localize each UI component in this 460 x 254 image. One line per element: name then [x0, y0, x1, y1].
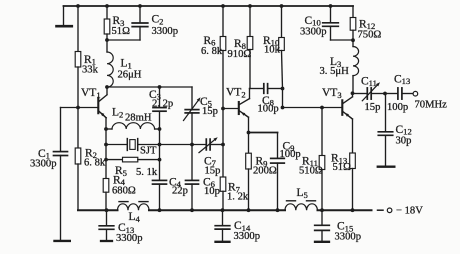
- svg-text:VT3: VT3: [322, 87, 342, 100]
- svg-text:3300p: 3300p: [234, 231, 260, 242]
- svg-text:750Ω: 750Ω: [358, 30, 382, 41]
- svg-text:6. 8k: 6. 8k: [201, 46, 223, 57]
- svg-text:3. 5μH: 3. 5μH: [320, 66, 350, 77]
- svg-text:3300p: 3300p: [30, 159, 56, 170]
- svg-text:22p: 22p: [172, 186, 188, 197]
- svg-text:15p: 15p: [202, 106, 218, 117]
- svg-text:51Ω: 51Ω: [112, 26, 131, 37]
- svg-text:26μH: 26μH: [118, 70, 142, 81]
- svg-text:28mH: 28mH: [125, 113, 152, 124]
- svg-text:10k: 10k: [264, 45, 281, 56]
- svg-text:51Ω: 51Ω: [333, 162, 352, 173]
- svg-text:200Ω: 200Ω: [253, 166, 277, 177]
- svg-text:510Ω: 510Ω: [299, 165, 323, 176]
- svg-text:15p: 15p: [205, 165, 221, 176]
- svg-text:VT2: VT2: [226, 87, 246, 100]
- svg-text:L4: L4: [129, 211, 141, 224]
- svg-text:3300p: 3300p: [152, 26, 178, 37]
- svg-text:C11: C11: [361, 75, 377, 88]
- svg-text:33k: 33k: [82, 65, 99, 76]
- svg-text:L1: L1: [121, 58, 132, 71]
- svg-text:1. 2k: 1. 2k: [227, 192, 249, 203]
- svg-text:5. 1k: 5. 1k: [136, 167, 158, 178]
- svg-text:SJT: SJT: [140, 146, 157, 157]
- svg-text:910Ω: 910Ω: [228, 49, 252, 60]
- svg-text:2. 2p: 2. 2p: [152, 98, 173, 109]
- svg-text:C13: C13: [394, 73, 410, 86]
- svg-text:L2: L2: [112, 107, 123, 120]
- svg-text:3300p: 3300p: [300, 27, 326, 38]
- svg-text:VT1: VT1: [81, 87, 101, 100]
- svg-text:− 18V: − 18V: [396, 206, 423, 217]
- svg-text:100p: 100p: [280, 149, 301, 160]
- svg-text:30p: 30p: [396, 136, 412, 147]
- svg-text:3300p: 3300p: [116, 233, 142, 244]
- svg-text:C2: C2: [152, 14, 164, 27]
- svg-text:70MHz: 70MHz: [415, 99, 448, 110]
- svg-text:10p: 10p: [204, 186, 220, 197]
- svg-text:3300p: 3300p: [335, 232, 361, 243]
- svg-text:100p: 100p: [387, 102, 408, 113]
- svg-text:L5: L5: [297, 187, 308, 200]
- svg-text:15p: 15p: [365, 102, 381, 113]
- svg-text:100p: 100p: [258, 104, 279, 115]
- svg-text:680Ω: 680Ω: [112, 186, 136, 197]
- svg-text:6. 8k: 6. 8k: [84, 158, 106, 169]
